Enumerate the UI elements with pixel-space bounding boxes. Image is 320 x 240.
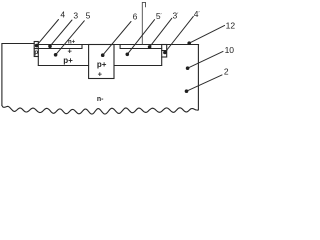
svg-text:p: p	[34, 49, 38, 56]
svg-text:10: 10	[225, 45, 235, 55]
svg-text:6: 6	[133, 11, 138, 21]
wire right surface	[38, 44, 198, 46]
leader label 4'	[165, 16, 193, 52]
leader label 3	[50, 20, 72, 46]
wire left surface	[2, 43, 34, 45]
svg-text:+: +	[68, 46, 73, 55]
leader label 5'	[127, 20, 154, 55]
node dot d4 (deep p+ center)	[101, 53, 105, 57]
wire p+ well right, right edge	[161, 57, 163, 66]
wire p+ well left, left edge	[37, 57, 39, 66]
leader label 1 (vertical with hook)	[142, 2, 145, 44]
leader label 12	[189, 25, 224, 43]
wire divider in left contact box	[34, 48, 38, 50]
leader label 6	[103, 22, 131, 56]
svg-text:p+: p+	[97, 60, 107, 69]
node dot d9 (n- bulk, label 10)	[186, 66, 190, 70]
node dot d3 (p+ well left)	[54, 53, 58, 57]
p+ deep central box	[89, 45, 114, 79]
n+ emitter strip left: bottom	[38, 48, 82, 50]
node dot d8 (surface, label 12)	[187, 41, 191, 45]
node dot d7 (right contact)	[163, 51, 167, 55]
leader label 3'	[150, 18, 172, 47]
p+ well right bottom	[114, 65, 162, 67]
svg-text:12: 12	[226, 20, 236, 30]
svg-text:4: 4	[60, 9, 65, 19]
p+ well left bottom	[38, 65, 88, 67]
node dot d6 (n+ strip right)	[148, 45, 152, 49]
svg-text:5: 5	[86, 10, 91, 20]
node dot d10 (n- bulk, label 2)	[185, 89, 189, 93]
svg-text:2: 2	[224, 66, 229, 76]
svg-text:p+: p+	[63, 56, 73, 65]
svg-text:n+: n+	[68, 40, 76, 46]
leader label 4	[37, 20, 59, 46]
wire wavy substrate break	[2, 106, 198, 115]
node dot d2 (n+ strip left)	[48, 44, 52, 48]
svg-text:n-: n-	[97, 96, 104, 103]
svg-text:+: +	[98, 69, 103, 78]
n+ emitter strip right: bottom	[120, 48, 162, 50]
svg-text:5′: 5′	[156, 11, 162, 21]
leader label 5	[56, 21, 85, 55]
svg-text:3: 3	[73, 10, 78, 20]
wire left edge	[1, 44, 3, 106]
wire divider in right contact box	[162, 50, 167, 52]
wire n+ strip right step	[119, 45, 121, 49]
contact notch box right	[162, 45, 167, 58]
svg-text:4′: 4′	[194, 9, 200, 19]
wire n+ strip left step	[81, 45, 83, 49]
svg-text:3′: 3′	[173, 11, 179, 21]
leader label 10	[188, 51, 223, 68]
node dot d5 (p+ well right)	[126, 53, 130, 57]
cathode contact box left (outer)	[34, 42, 38, 57]
node dot d1 (cathode contact)	[35, 44, 39, 48]
leader label 2	[187, 75, 223, 91]
wire right edge	[197, 45, 199, 111]
